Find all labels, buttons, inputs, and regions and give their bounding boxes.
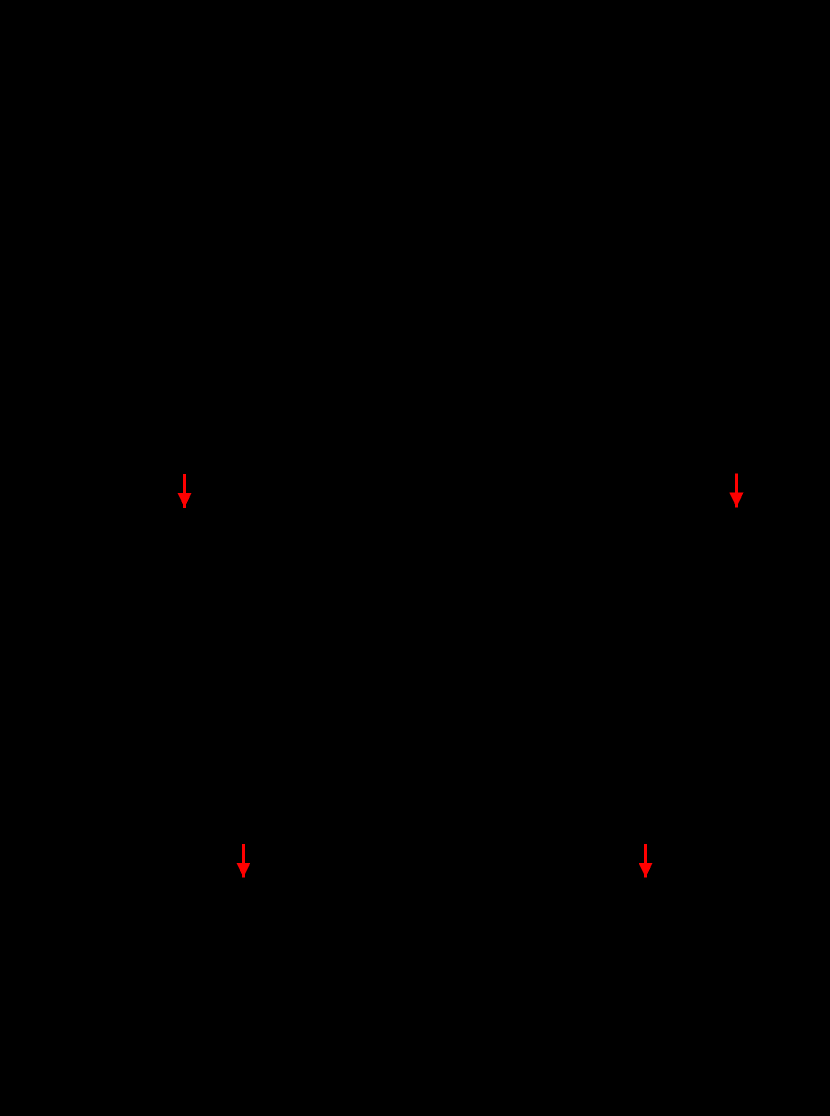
red arrow 3 (lower left, pointing down) — [236, 844, 250, 878]
red arrow 4 (lower right, pointing down) — [639, 844, 653, 878]
red arrow 1 (upper left, pointing down) — [178, 474, 192, 508]
red arrow 2 (upper right, pointing down) — [729, 474, 743, 508]
